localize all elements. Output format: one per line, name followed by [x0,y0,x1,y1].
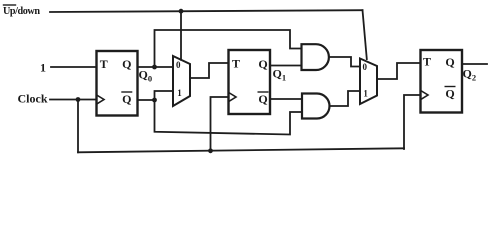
overline of Qbar U3 [445,86,455,88]
svg-text:0: 0 [176,60,181,70]
wire Qbar0 bottom route to gate G2 [155,100,303,135]
wire mux M1 output to T of U2 [190,63,229,78]
wire Up/down trunk [50,10,363,12]
and gate G1 [302,44,329,70]
svg-text:0: 0 [363,62,368,72]
flip-flop U3 body [421,50,463,113]
wire Q0 top route to gate G1 [155,30,302,67]
wire Q0 to mux M1 input 0 [138,66,174,68]
wire clock riser to U2 [211,97,229,152]
svg-text:1: 1 [40,61,46,75]
label 0 of mux M1 [176,60,181,70]
label Q of U3 [445,55,454,69]
wire Q2 output [462,63,487,65]
svg-text:Q: Q [122,92,131,106]
wire clock down leg [77,100,79,153]
flip-flop U2 body [229,50,271,114]
svg-text:Q: Q [445,87,454,101]
label Qbar of U2 [258,92,267,106]
overline of Qbar U1 [122,91,132,93]
label node Q0 [139,68,153,84]
wire G2 output to mux M2 input 1 [330,91,360,106]
junction dot on Up/down at mux M1 select [179,9,184,14]
label 1 of mux M2 [363,89,368,99]
svg-text:Q: Q [258,92,267,106]
label Q of U1 [122,57,131,71]
mux M2 body [360,59,377,105]
svg-text:T: T [232,57,240,71]
label T of U1 [100,57,108,71]
junction dot clock branch [76,97,81,102]
label node Q2 [463,67,477,83]
wire 1 to T input of U1 [51,66,97,68]
wire Clock to U1 clock [50,99,96,101]
label node Q1 [273,67,287,83]
svg-text:T: T [100,57,108,71]
label constant 1 [40,61,46,75]
flip-flop U2 clock triangle [230,93,237,101]
label Qbar of U3 [445,87,454,101]
svg-text:Clock: Clock [18,92,48,106]
label Qbar of U1 [122,92,131,106]
wire Qbar0 to mux M1 input 1 [155,91,174,100]
flip-flop U1 clock triangle [98,96,105,104]
wire Q1 to gate G1 [270,65,302,67]
overline of Qbar U2 [258,91,268,93]
svg-text:Up/down: Up/down [3,6,40,17]
svg-text:1: 1 [363,89,368,99]
mux M1 body [173,56,190,106]
svg-text:Q: Q [445,55,454,69]
wire Qbar0 from U1 [138,99,155,101]
wire clock riser to U3 [404,95,421,149]
junction dot clock to U2 [208,148,213,153]
junction dot node Qbar0 [152,98,157,103]
wire Up/down to mux M2 select [363,10,367,59]
flip-flop U3 clock triangle [422,91,429,99]
label T of U3 [423,55,431,69]
svg-text:Q: Q [258,57,267,71]
label T of U2 [232,57,240,71]
flip-flop U1 body [97,51,138,116]
svg-text:Q: Q [122,57,131,71]
label Up/down [3,6,40,17]
svg-text:1: 1 [177,88,182,98]
wire clock bottom run [78,148,404,152]
svg-text:T: T [423,55,431,69]
wire Up/down to mux M1 select [180,11,182,60]
and gate G2 [302,94,329,119]
wire mux M2 output to T of U3 [377,63,421,79]
label Clock [18,92,48,106]
wire Qbar1 to gate G2 [270,98,302,100]
wire G1 output to mux M2 input 0 [330,57,361,67]
label 0 of mux M2 [363,62,368,72]
overline over Up [4,4,16,6]
label Q of U2 [258,57,267,71]
junction dot node Q0 [152,65,157,70]
label 1 of mux M1 [177,88,182,98]
